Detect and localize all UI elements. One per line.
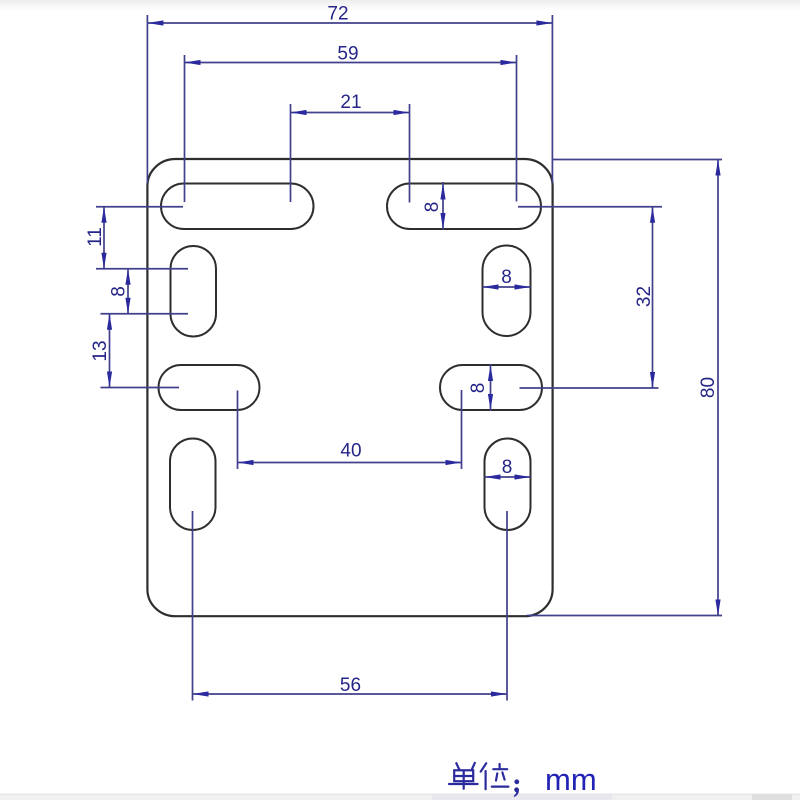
extension line right — [506, 511, 508, 701]
dimension 11 left chain — [96, 207, 183, 269]
arrow left — [238, 460, 254, 465]
extension line left — [237, 391, 239, 470]
dimension line — [485, 476, 531, 478]
arrow right — [515, 474, 531, 479]
slot middle-right — [440, 365, 542, 410]
slot bottom-left — [170, 439, 216, 531]
svg-text:72: 72 — [327, 4, 348, 25]
dimension 8 top-right slot — [440, 182, 445, 230]
dimension 8 left chain — [96, 269, 188, 314]
svg-text:80: 80 — [698, 377, 719, 398]
dimension line — [103, 207, 105, 269]
dimension 32 — [518, 207, 662, 388]
svg-text:11: 11 — [85, 227, 106, 247]
extension line left — [184, 55, 186, 202]
dimension line — [483, 286, 531, 288]
dimension line — [127, 269, 129, 314]
dimension 40 — [238, 390, 462, 469]
arrow left — [291, 110, 307, 115]
svg-text:13: 13 — [90, 340, 111, 361]
arrow left — [485, 474, 501, 479]
extension line top — [553, 159, 722, 161]
extension line right — [409, 104, 411, 203]
extension line right — [516, 55, 518, 202]
dimension 13 left chain — [101, 314, 180, 388]
dimension line — [238, 462, 462, 464]
slot left vertical — [171, 246, 217, 337]
arrow left — [147, 20, 163, 25]
extension line bottom — [101, 313, 189, 315]
svg-text:59: 59 — [337, 44, 358, 65]
arrow right — [394, 110, 410, 115]
arrow right — [536, 20, 552, 25]
arrow left — [185, 60, 201, 65]
arrow up — [101, 207, 106, 223]
extension line top — [96, 206, 183, 208]
slot middle-left — [159, 365, 260, 410]
svg-text:32: 32 — [634, 286, 655, 307]
extension line left — [290, 104, 292, 202]
unit note: hanzi dan — [449, 763, 478, 789]
dimension 21 — [291, 104, 410, 203]
arrow left — [483, 284, 499, 289]
svg-text:8: 8 — [422, 202, 443, 213]
svg-text:mm: mm — [545, 762, 597, 797]
dimension line — [147, 22, 552, 24]
plate outline — [147, 159, 552, 616]
arrow right — [446, 460, 462, 465]
dimension line — [490, 364, 492, 411]
slot top-right — [387, 184, 541, 230]
dimension line — [717, 160, 719, 616]
arrow down — [101, 253, 106, 269]
dimension 8 right vertical slot — [483, 284, 531, 289]
extension line top — [96, 268, 188, 270]
arrow up — [125, 269, 130, 285]
extension line top — [518, 206, 662, 208]
arrow down — [715, 600, 720, 616]
extension line bottom — [101, 387, 180, 389]
arrow right — [501, 60, 517, 65]
bottom edge grey strip — [0, 794, 800, 800]
dimension 80 — [527, 160, 722, 616]
slot right vertical — [483, 246, 531, 337]
svg-text:56: 56 — [340, 675, 361, 696]
dimension line — [185, 62, 517, 64]
dimension 8 bottom-right slot — [485, 474, 531, 479]
arrow right — [515, 284, 531, 289]
arrow up — [440, 184, 445, 200]
arrow left — [193, 691, 209, 696]
extension line bottom — [527, 615, 722, 617]
slot top-left — [161, 184, 314, 230]
dimension 59 — [185, 55, 517, 202]
svg-text:21: 21 — [340, 92, 361, 113]
arrow down — [107, 372, 112, 388]
arrow up — [650, 207, 655, 223]
extension line right — [551, 15, 553, 183]
dimension 56 — [193, 511, 508, 701]
dimension line — [442, 182, 444, 230]
svg-text:8: 8 — [109, 286, 130, 297]
dimension line — [291, 112, 410, 114]
arrow down — [488, 394, 493, 410]
arrow down — [650, 372, 655, 388]
svg-text:40: 40 — [340, 441, 361, 462]
extension line left — [192, 511, 194, 701]
arrow up — [488, 365, 493, 381]
top edge shadow strip — [0, 0, 800, 10]
dimension line — [109, 314, 111, 388]
svg-text:8: 8 — [501, 267, 512, 288]
arrow down — [125, 298, 130, 314]
dimension 8 middle-right slot — [488, 364, 493, 411]
svg-text:8: 8 — [502, 457, 513, 478]
dimension line — [652, 207, 654, 388]
extension line right — [461, 390, 463, 469]
arrow up — [107, 314, 112, 330]
extension line bottom — [520, 387, 659, 389]
arrow down — [440, 213, 445, 229]
unit note: fullwidth semicolon — [514, 779, 520, 797]
dimension 72 top — [147, 15, 552, 183]
slot bottom-right — [485, 439, 531, 531]
unit note: hanzi wei — [481, 763, 509, 789]
dimension line — [193, 693, 508, 695]
arrow right — [491, 691, 507, 696]
arrow up — [715, 160, 720, 176]
svg-text:8: 8 — [468, 383, 489, 394]
extension line left — [146, 15, 148, 183]
